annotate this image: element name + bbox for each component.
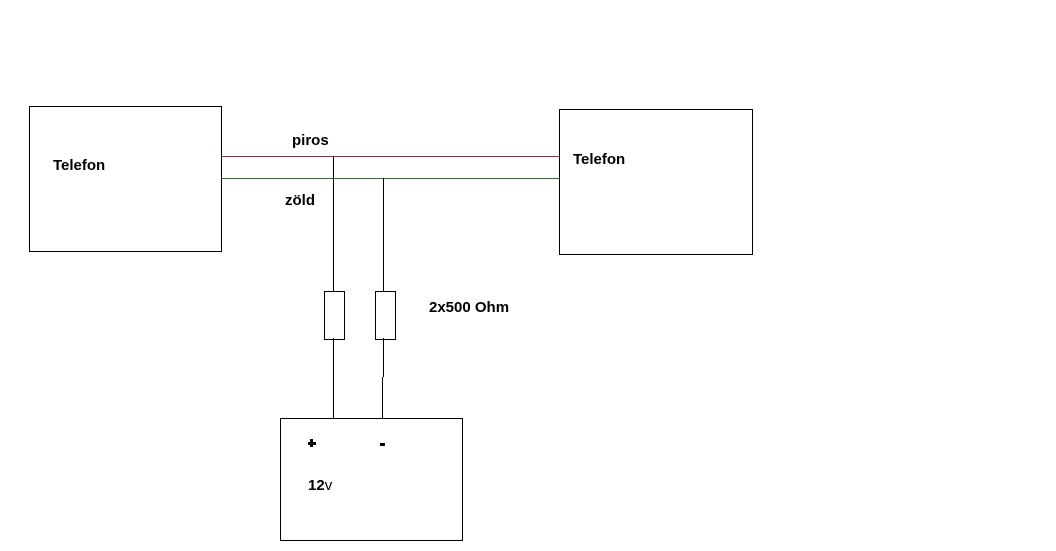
label minus terminal (380, 443, 385, 446)
battery box 12v (280, 418, 463, 541)
resistor R2 (375, 291, 396, 340)
label Telefon (left box) (53, 158, 105, 173)
wire from resistor R1 down to battery plus terminal (333, 338, 334, 420)
label piros (292, 133, 329, 148)
label Telefon (right box) (573, 152, 625, 167)
wire from green line down to resistor R2 (383, 178, 384, 292)
resistor R1 (324, 291, 345, 340)
wire zold (green) from left box to right box (222, 178, 559, 179)
telephone box left (Telefon) (29, 106, 222, 252)
label 2x500 Ohm (429, 300, 509, 315)
wire from red line down to resistor R1 (333, 156, 334, 292)
label zold (285, 193, 315, 208)
label 12v (308, 478, 332, 493)
wire from resistor R2 down to battery minus terminal (upper segment) (383, 338, 384, 377)
wire piros (red) from left box to right box (222, 156, 559, 157)
label plus terminal (310, 439, 313, 447)
wire from resistor R2 down to battery minus terminal (lower segment) (382, 377, 383, 418)
telephone box right (Telefon) (559, 109, 753, 255)
